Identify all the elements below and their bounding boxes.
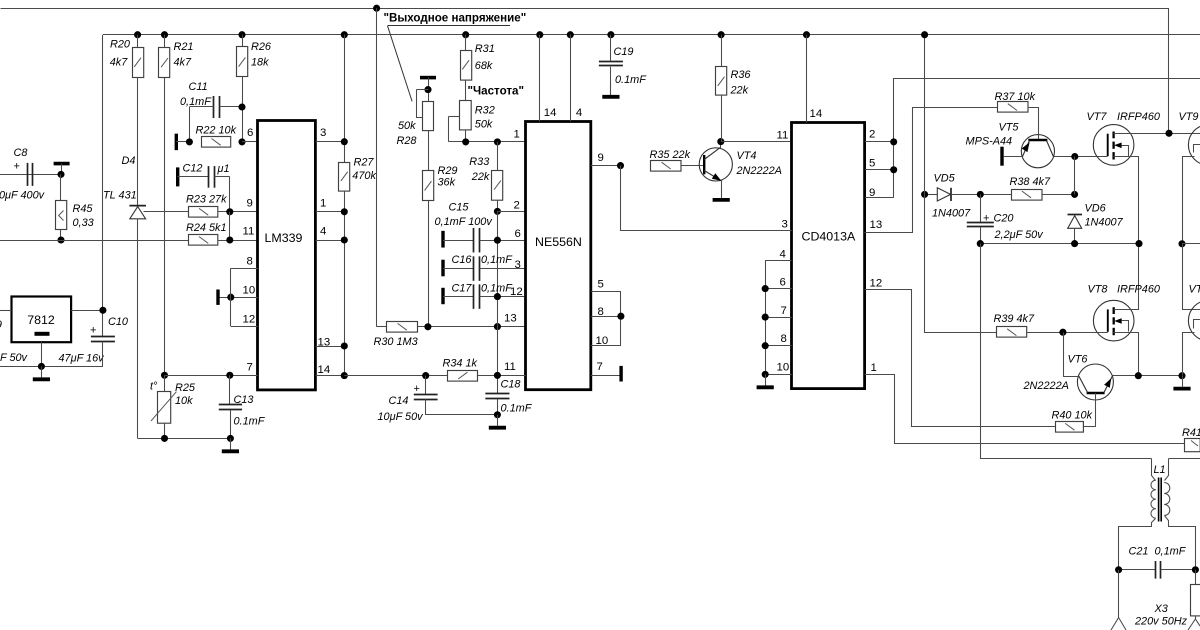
svg-text:VD5: VD5 bbox=[934, 173, 956, 185]
node C11/R26 bbox=[238, 103, 245, 110]
svg-text:2: 2 bbox=[869, 128, 875, 140]
bracket pins 2-5-9 and riser to gate bus bbox=[894, 79, 1200, 198]
wire: C10 bottom / ground return line bbox=[0, 366, 103, 368]
svg-text:11: 11 bbox=[243, 226, 255, 238]
capacitor C8 bbox=[0, 174, 61, 176]
svg-text:C12: C12 bbox=[183, 162, 203, 174]
node R29/R30 bbox=[424, 323, 431, 330]
svg-text:IRFP460: IRFP460 bbox=[1117, 111, 1160, 123]
wire: 7812 ground pin bbox=[41, 342, 43, 366]
svg-text:R23 27k: R23 27k bbox=[186, 193, 227, 205]
svg-text:4: 4 bbox=[320, 226, 326, 238]
svg-text:47μF 16v: 47μF 16v bbox=[59, 353, 105, 365]
wire: R27 bottom through pins 1,4,13,14 bbox=[344, 191, 346, 376]
wire: pin9 node to pin11 node bbox=[229, 212, 231, 240]
svg-text:R45: R45 bbox=[73, 203, 94, 215]
wire: R26 bottom to pin6 node bbox=[242, 77, 244, 142]
svg-text:VT1: VT1 bbox=[1189, 283, 1200, 295]
svg-text:13: 13 bbox=[870, 219, 883, 231]
svg-text:R29: R29 bbox=[438, 165, 458, 177]
wire: pin 7 line bbox=[165, 375, 258, 377]
svg-text:μF 50v: μF 50v bbox=[0, 352, 28, 364]
op-amp U1 LM339 bbox=[258, 121, 316, 390]
ground right bbox=[1182, 376, 1184, 387]
wire: VT8 source to ground node bbox=[1114, 333, 1139, 376]
wire: top supply rail bbox=[1, 9, 1169, 134]
svg-text:0,1mF: 0,1mF bbox=[1155, 546, 1187, 558]
potentiometer R32 50k bbox=[465, 80, 467, 101]
svg-text:R33: R33 bbox=[469, 156, 489, 168]
capacitor C11 0,1mF bbox=[213, 96, 215, 118]
svg-text:1: 1 bbox=[514, 128, 520, 140]
resistor R37 10k bbox=[998, 102, 1029, 113]
svg-text:+: + bbox=[414, 383, 420, 395]
svg-text:8: 8 bbox=[247, 255, 253, 267]
node pin13 NE556 bbox=[494, 323, 501, 330]
wire: pin 1 to R41 bbox=[865, 375, 1185, 444]
svg-text:1: 1 bbox=[871, 362, 877, 374]
resistor R24 5k1 bbox=[189, 235, 218, 246]
node pin6 LM339 bbox=[238, 138, 245, 145]
terminal at pin 10 bbox=[216, 290, 219, 305]
ground under C13 bbox=[230, 438, 232, 449]
svg-text:22k: 22k bbox=[730, 85, 749, 97]
svg-text:R20: R20 bbox=[110, 39, 130, 51]
wire: VT5 collector to VT7 gate bbox=[1053, 156, 1107, 158]
svg-text:CD4013A: CD4013A bbox=[802, 230, 856, 244]
svg-text:2: 2 bbox=[514, 199, 520, 211]
node C8/R45 bbox=[57, 171, 64, 178]
timer U2 NE556N bbox=[526, 122, 591, 390]
svg-text:10μF 50v: 10μF 50v bbox=[378, 411, 424, 423]
capacitor C14 10uF 50v bbox=[425, 376, 427, 395]
node 7812 output bbox=[99, 307, 106, 314]
svg-text:C16: C16 bbox=[452, 254, 473, 266]
svg-text:VT9: VT9 bbox=[1179, 111, 1199, 123]
svg-text:MPS-A44: MPS-A44 bbox=[966, 135, 1013, 147]
svg-text:R37 10k: R37 10k bbox=[995, 91, 1036, 103]
capacitor C18 0.1mF bbox=[485, 393, 509, 395]
callout line to R28 bbox=[388, 26, 413, 102]
pin 9 NE556 wire bbox=[591, 165, 621, 167]
wire: left vertical rail from +12V rail down to 7812 output bbox=[102, 35, 104, 337]
resistor R23 27k bbox=[189, 207, 218, 218]
resistor R39 4k7 bbox=[925, 35, 997, 333]
svg-text:11: 11 bbox=[777, 130, 789, 142]
terminal at VT5 emitter bbox=[1000, 147, 1003, 166]
svg-text:10: 10 bbox=[777, 361, 790, 373]
capacitor C15 0,1mF 100v bbox=[441, 231, 444, 248]
svg-text:C14: C14 bbox=[389, 395, 409, 407]
wire: VT8 gate from R39 bbox=[1063, 332, 1108, 334]
svg-text:C8: C8 bbox=[14, 147, 28, 159]
bracket pins 5-8-10 bbox=[620, 291, 622, 346]
svg-text:4k7: 4k7 bbox=[174, 57, 193, 69]
svg-text:2N2222A: 2N2222A bbox=[1023, 380, 1069, 392]
svg-text:R34 1k: R34 1k bbox=[443, 357, 478, 369]
svg-text:2N2222A: 2N2222A bbox=[736, 165, 782, 177]
svg-text:10k: 10k bbox=[175, 395, 193, 407]
svg-text:IRFP460: IRFP460 bbox=[1117, 283, 1160, 295]
wire: pin9 down to CD4013 pin3 bbox=[621, 166, 792, 231]
node 7812 gnd bbox=[38, 363, 45, 370]
wire: R20 bottom to D4 bbox=[137, 77, 139, 205]
capacitor C21 0,1mF bbox=[1119, 569, 1156, 571]
wire: pins 2-6-12-13-11 common vertical bbox=[497, 211, 499, 393]
node pin11/C18 bbox=[494, 372, 501, 379]
svg-text:5: 5 bbox=[598, 279, 604, 291]
svg-text:1N4007: 1N4007 bbox=[1085, 216, 1124, 228]
wire: down to VT10 drain bbox=[1183, 244, 1200, 310]
svg-text:3: 3 bbox=[515, 259, 521, 271]
svg-text:50k: 50k bbox=[475, 119, 493, 131]
resistor R26 18k bbox=[238, 31, 245, 38]
svg-text:0,1mF 100v: 0,1mF 100v bbox=[435, 216, 493, 228]
svg-text:0,1mF: 0,1mF bbox=[481, 282, 513, 294]
node VT4 collector bbox=[717, 138, 724, 145]
diode D4 TL431 bbox=[129, 205, 146, 207]
svg-text:50k: 50k bbox=[398, 120, 416, 132]
wire: pin1 node NE556 bbox=[448, 141, 525, 143]
svg-text:10: 10 bbox=[243, 284, 256, 296]
wire: VT7 drain to top rail bbox=[1114, 133, 1200, 135]
svg-text:4: 4 bbox=[576, 107, 582, 119]
svg-text:7: 7 bbox=[247, 361, 253, 373]
node R45/feedback line bbox=[57, 236, 64, 243]
svg-text:D4: D4 bbox=[122, 155, 136, 167]
resistor R20 4k7 bbox=[134, 31, 141, 38]
svg-text:R39 4k7: R39 4k7 bbox=[994, 313, 1036, 325]
svg-text:C19: C19 bbox=[614, 46, 634, 58]
svg-text:9: 9 bbox=[247, 197, 253, 209]
terminal at pin 7 bbox=[619, 366, 622, 382]
svg-text:X3: X3 bbox=[1154, 603, 1168, 615]
svg-text:11: 11 bbox=[504, 361, 516, 373]
terminal at C12 bbox=[176, 167, 179, 186]
svg-text:R25: R25 bbox=[175, 382, 196, 394]
svg-text:C13: C13 bbox=[234, 394, 254, 406]
svg-text:0.1mF: 0.1mF bbox=[615, 74, 647, 86]
wire: bottom node R25/C13 bbox=[138, 438, 231, 440]
diode VD6 1N4007 bbox=[1068, 214, 1083, 216]
svg-text:0,1mF: 0,1mF bbox=[180, 96, 212, 108]
capacitor C17 0,1mF bbox=[441, 288, 444, 304]
thermistor R25 10k bbox=[161, 372, 168, 379]
svg-text:+: + bbox=[14, 161, 20, 173]
wire: bottom rail down to L1 feed bbox=[981, 244, 1152, 459]
svg-text:6: 6 bbox=[247, 127, 253, 139]
transistor VT4 2N2222A bbox=[699, 148, 732, 181]
transistor VT10 (partial) bbox=[1188, 300, 1200, 341]
node R38/VD6 bbox=[1071, 191, 1078, 198]
ground under C19 bbox=[610, 84, 612, 95]
svg-text:13: 13 bbox=[504, 312, 517, 324]
flip-flop U3 CD4013A bbox=[792, 123, 865, 389]
svg-text:220v 50Hz: 220v 50Hz bbox=[1134, 615, 1188, 627]
wire: to LM339 pin 6 bbox=[242, 141, 258, 143]
resistor R33 22k bbox=[497, 142, 499, 170]
svg-text:14: 14 bbox=[318, 364, 331, 376]
svg-text:NE556N: NE556N bbox=[535, 235, 582, 249]
svg-text:R22 10k: R22 10k bbox=[196, 125, 237, 137]
svg-text:R31: R31 bbox=[475, 43, 495, 55]
fuse on X3 line (partial) bbox=[1195, 570, 1197, 584]
voltage regulator 7812 bbox=[12, 297, 72, 343]
svg-text:L1: L1 bbox=[1154, 464, 1166, 476]
transistor VT8 IRFP460 bbox=[1093, 300, 1134, 341]
svg-text:R32: R32 bbox=[475, 104, 495, 116]
svg-text:C9: C9 bbox=[0, 319, 2, 331]
wire: dead-time bottom rail bbox=[980, 243, 1139, 245]
svg-text:7: 7 bbox=[781, 305, 787, 317]
capacitor C12 u1 bbox=[178, 176, 210, 178]
resistor R34 1k bbox=[344, 375, 448, 377]
svg-text:36k: 36k bbox=[438, 176, 456, 188]
wire: sense rail from top rail down to R30 bbox=[376, 8, 378, 327]
diode VD5 1N4007 bbox=[925, 194, 938, 196]
svg-text:7812: 7812 bbox=[27, 313, 55, 327]
svg-text:3: 3 bbox=[320, 127, 326, 139]
wire: VT7 source down to VT8 drain bbox=[1114, 157, 1139, 310]
resistor R45 0,33 bbox=[60, 174, 62, 201]
svg-text:R28: R28 bbox=[397, 135, 417, 147]
node pin9 LM339 bbox=[226, 208, 233, 215]
svg-text:R40 10k: R40 10k bbox=[1052, 410, 1093, 422]
node pin11 LM339 bbox=[226, 236, 233, 243]
svg-text:+: + bbox=[983, 213, 989, 225]
svg-text:6: 6 bbox=[515, 228, 521, 240]
wire: VT6 collector up to R39 node bbox=[1064, 333, 1079, 377]
bracket pins 8-10-12 bbox=[230, 268, 232, 326]
svg-text:C15: C15 bbox=[449, 201, 470, 213]
svg-text:68k: 68k bbox=[475, 60, 493, 72]
wire: R28 to R29 bbox=[428, 131, 430, 171]
svg-text:C20: C20 bbox=[994, 213, 1014, 225]
wire: VT9 source down to output node bbox=[1183, 157, 1195, 244]
potentiometer R28 50k bbox=[420, 76, 436, 80]
transistor VT6 2N2222A bbox=[1077, 364, 1113, 400]
svg-text:0μF 400v: 0μF 400v bbox=[0, 189, 45, 201]
svg-text:R41: R41 bbox=[1182, 427, 1200, 439]
wire: VT6 emitter to ground rail bbox=[1112, 375, 1182, 377]
svg-text:R36: R36 bbox=[731, 69, 752, 81]
svg-text:C17: C17 bbox=[452, 282, 473, 294]
svg-text:C11: C11 bbox=[189, 81, 208, 93]
svg-text:4k7: 4k7 bbox=[110, 57, 129, 69]
svg-text:VD6: VD6 bbox=[1085, 202, 1107, 214]
wire: feedback line to R24 bbox=[0, 240, 189, 242]
ground under C18 bbox=[497, 415, 499, 426]
svg-text:VT4: VT4 bbox=[737, 150, 757, 162]
capacitor C16 0,1mF bbox=[441, 260, 444, 277]
svg-text:9: 9 bbox=[598, 152, 604, 164]
svg-text:7: 7 bbox=[597, 361, 603, 373]
svg-text:"Выходное напряжение": "Выходное напряжение" bbox=[384, 12, 527, 25]
terminal above C8 node bbox=[54, 162, 70, 166]
wire: 7812 input from C9 bbox=[0, 310, 11, 312]
resistor R40 10k bbox=[1056, 422, 1084, 433]
svg-text:0,1mF: 0,1mF bbox=[481, 254, 513, 266]
wire: VT10 source to ground node bbox=[1183, 333, 1195, 376]
wire: pin 13 to R37 bbox=[865, 108, 998, 233]
ground under VT4 bbox=[721, 187, 723, 198]
wire: VT4 collector to CD4013 pin 11 bbox=[721, 141, 792, 143]
node: tap on top rail bbox=[373, 5, 380, 12]
svg-text:12: 12 bbox=[510, 286, 523, 298]
svg-text:VT5: VT5 bbox=[999, 121, 1020, 133]
svg-text:1: 1 bbox=[320, 197, 326, 209]
svg-text:R26: R26 bbox=[251, 41, 272, 53]
svg-text:12: 12 bbox=[243, 313, 256, 325]
wire: R29 bottom to R30 node bbox=[428, 201, 430, 327]
svg-text:VT8: VT8 bbox=[1088, 283, 1108, 295]
svg-text:"Частота": "Частота" bbox=[468, 84, 524, 97]
svg-text:C10: C10 bbox=[108, 316, 128, 328]
svg-text:R35 22k: R35 22k bbox=[650, 149, 691, 161]
svg-text:LM339: LM339 bbox=[265, 231, 303, 245]
svg-text:C21: C21 bbox=[1129, 546, 1149, 558]
svg-text:3: 3 bbox=[782, 219, 788, 231]
svg-text:18k: 18k bbox=[251, 57, 269, 69]
svg-text:0.1mF: 0.1mF bbox=[234, 415, 266, 427]
wire: 7812 output to rail bbox=[71, 310, 103, 312]
svg-text:470k: 470k bbox=[352, 170, 376, 182]
svg-text:4: 4 bbox=[780, 249, 786, 261]
svg-text:VT7: VT7 bbox=[1087, 111, 1108, 123]
wire: output node to right edge bbox=[1182, 243, 1200, 245]
node R22 left bbox=[186, 138, 193, 145]
svg-text:22k: 22k bbox=[471, 171, 490, 183]
svg-text:8: 8 bbox=[781, 333, 787, 345]
capacitor C13 0.1mF bbox=[229, 375, 231, 404]
transistor VT9 (partial) bbox=[1188, 125, 1200, 166]
svg-text:+: + bbox=[90, 325, 96, 337]
node C20 top bbox=[977, 191, 984, 198]
resistor R35 22k bbox=[651, 161, 682, 172]
node R39/VT8 gate/VT6 collector bbox=[1059, 329, 1066, 336]
svg-text:14: 14 bbox=[810, 108, 823, 120]
svg-text:6: 6 bbox=[780, 277, 786, 289]
svg-text:1N4007: 1N4007 bbox=[932, 207, 971, 219]
transistor VT5 MPS-A44 bbox=[1021, 135, 1054, 168]
resistor R22 10k bbox=[202, 137, 231, 148]
capacitor C19 0.1mF bbox=[607, 31, 614, 38]
resistor R31 68k bbox=[462, 31, 469, 38]
wire: D4 down to bottom node bbox=[137, 219, 139, 439]
wire: VT5-VT7gate node down to R38 bbox=[1074, 157, 1076, 195]
resistor R29 36k bbox=[423, 171, 434, 201]
resistor R21 4k7 bbox=[161, 31, 168, 38]
svg-text:TL 431: TL 431 bbox=[103, 190, 137, 202]
svg-text:5: 5 bbox=[869, 158, 875, 170]
wire: VT4 emitter to ground bbox=[721, 181, 723, 198]
terminal at R22 input bbox=[175, 134, 178, 151]
resistor R27 470k bbox=[341, 31, 348, 38]
svg-text:14: 14 bbox=[544, 107, 557, 119]
resistor R30 1M3 bbox=[377, 326, 387, 328]
svg-text:μ1: μ1 bbox=[217, 163, 230, 175]
svg-text:0,33: 0,33 bbox=[73, 217, 94, 229]
node VT5/VT7 gate bbox=[1071, 153, 1078, 160]
resistor R36 22k bbox=[718, 31, 725, 38]
wire: +12V rail bbox=[103, 34, 1200, 36]
capacitor C10 47uF 16v bbox=[91, 336, 115, 338]
svg-text:C18: C18 bbox=[501, 378, 521, 390]
svg-text:R24 5k1: R24 5k1 bbox=[186, 222, 227, 234]
wire: pin 12 to R40 bbox=[865, 290, 1056, 427]
svg-text:VT6: VT6 bbox=[1068, 353, 1089, 365]
svg-text:0.1mF: 0.1mF bbox=[501, 402, 533, 414]
wire: D4 to R23 bbox=[144, 211, 190, 213]
capacitor C20 2,2uF 50v bbox=[980, 194, 982, 222]
node pin2 NE556 bbox=[494, 208, 501, 215]
wire: R21 bottom to thermistor node bbox=[164, 78, 166, 376]
ground under pin bracket bbox=[765, 374, 767, 385]
svg-text:R27: R27 bbox=[354, 156, 375, 168]
ground under 7812 bbox=[41, 366, 43, 377]
svg-text:2,2μF 50v: 2,2μF 50v bbox=[994, 229, 1044, 241]
svg-text:12: 12 bbox=[870, 278, 883, 290]
wire: VT8 drain bbox=[1114, 309, 1139, 311]
node VD5 line taps R39 riser bbox=[921, 191, 928, 198]
resistor R38 4k7 bbox=[1012, 190, 1043, 201]
svg-text:R21: R21 bbox=[174, 41, 194, 53]
transistor VT7 IRFP460 bbox=[1093, 125, 1134, 166]
wire: VT6 base lead bbox=[1095, 393, 1097, 427]
svg-text:R30 1M3: R30 1M3 bbox=[374, 336, 418, 348]
svg-text:t°: t° bbox=[150, 380, 158, 392]
svg-text:R38 4k7: R38 4k7 bbox=[1010, 176, 1052, 188]
